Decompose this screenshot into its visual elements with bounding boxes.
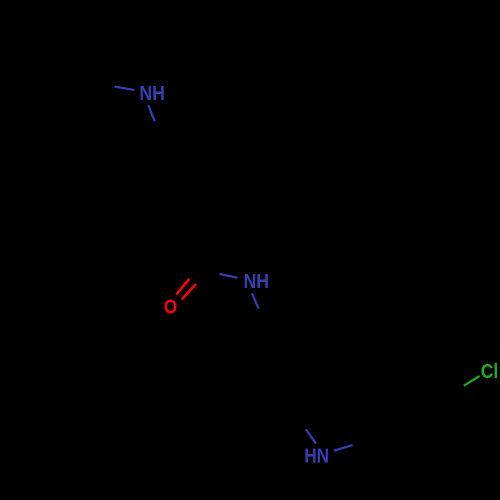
wire: bond N2-CH2 (blue half) <box>252 293 259 308</box>
wire: bond N3-C7a (blue half) <box>334 445 353 451</box>
svg-text:NH: NH <box>139 82 164 104</box>
svg-text:O: O <box>164 295 177 318</box>
wire: bond C2-N3 of indole (blue half) <box>306 429 316 444</box>
wire: bond N1-C (blue half, going down-right) <box>148 105 155 121</box>
svg-text:HN: HN <box>304 444 329 467</box>
wire: bond C(=O)-N2 (blue half) <box>220 274 238 278</box>
svg-text:NH: NH <box>244 270 269 292</box>
wire: bond C-N1 (blue half, top left) <box>115 87 135 90</box>
wire: C=O double bond line 2 (red half) <box>182 284 196 300</box>
wire: bond C5-Cl (green half) <box>464 376 480 386</box>
svg-text:Cl: Cl <box>481 360 498 382</box>
wire: C=O double bond line 1 (red half) <box>176 279 189 295</box>
